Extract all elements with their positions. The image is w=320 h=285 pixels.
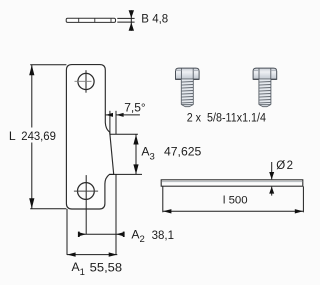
svg-text:Ø: Ø xyxy=(276,160,285,172)
svg-text:L: L xyxy=(9,129,16,143)
svg-text:7,5°: 7,5° xyxy=(124,100,146,114)
svg-text:4,8: 4,8 xyxy=(152,14,168,26)
svg-text:55,58: 55,58 xyxy=(90,260,123,274)
svg-text:2: 2 xyxy=(287,160,293,172)
svg-text:243,69: 243,69 xyxy=(21,129,56,143)
svg-text:l 500: l 500 xyxy=(223,194,248,206)
svg-text:2 x 5/8-11x1.1/4: 2 x 5/8-11x1.1/4 xyxy=(187,112,267,124)
svg-text:38,1: 38,1 xyxy=(152,228,175,242)
svg-text:B: B xyxy=(141,14,149,26)
svg-text:47,625: 47,625 xyxy=(164,144,201,158)
